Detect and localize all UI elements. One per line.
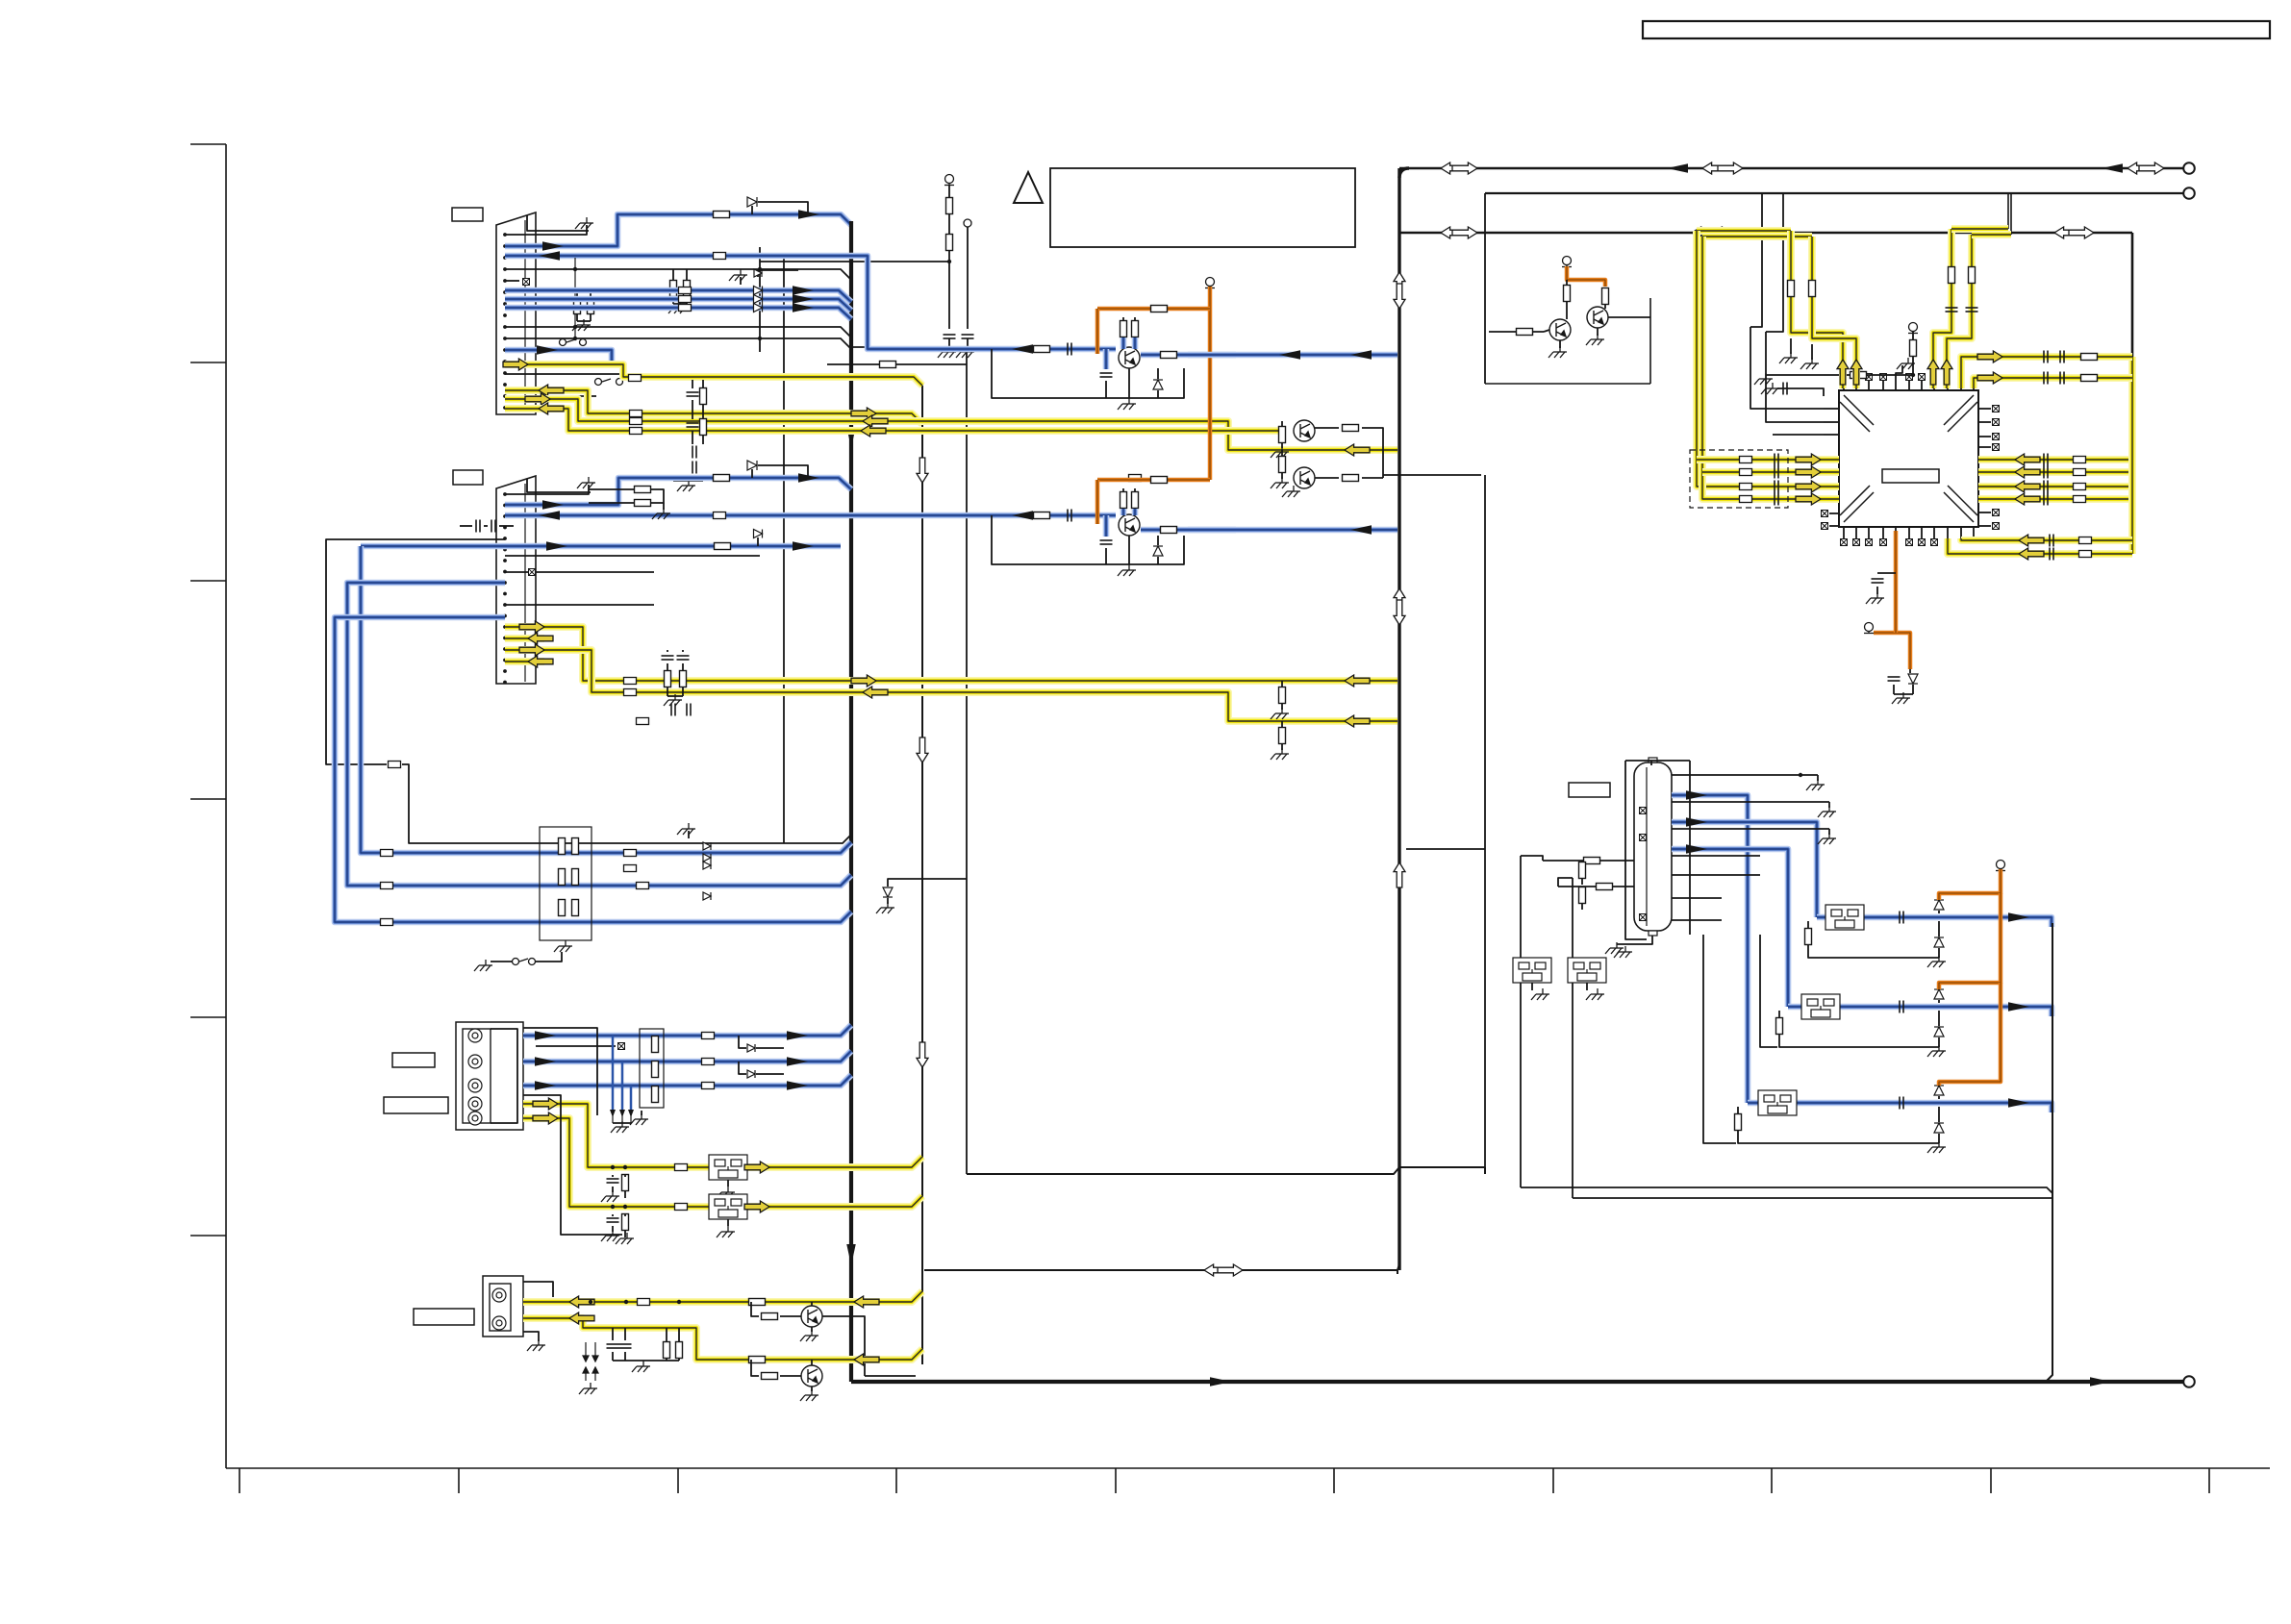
wire CN2 loop blue L3	[335, 617, 851, 922]
switch symbol 2	[513, 959, 536, 965]
wire blue CN3 row2	[523, 1051, 851, 1062]
terminal circle bottom right	[2183, 1376, 2195, 1387]
IC pins left	[1824, 408, 1839, 410]
IC pins right xmarks	[1978, 408, 1991, 410]
transistor pair on yellow pair A	[1279, 427, 1286, 443]
gate loop horizontals	[1521, 1187, 2052, 1193]
d-sub xmark pins	[1640, 808, 1647, 814]
thin verticals from line2 to IC	[1750, 193, 1762, 327]
wire CN2 loop blue L1	[361, 543, 841, 550]
wire blue to bus y=552	[1141, 527, 1397, 534]
wire CN1 pin1 to ground	[505, 225, 587, 235]
caps cluster below CN2 yellow	[662, 656, 674, 660]
yellow bus right vertical	[2128, 357, 2136, 554]
title block	[1643, 21, 2270, 38]
connector CN4 label	[414, 1309, 474, 1325]
mosfet protector row4	[709, 1155, 747, 1180]
diode on B1	[751, 206, 753, 214]
capacitor cluster below CN1 yellows	[687, 392, 699, 396]
bus vertical black x=885	[849, 221, 853, 1382]
wire blue row2 output	[1788, 1007, 2052, 1016]
transistor Q1	[1119, 347, 1140, 368]
connector CN5 d-sub body	[1634, 762, 1672, 931]
IC pins bottom with xmarks	[1843, 527, 1845, 538]
wire blue row3 output	[1748, 1103, 2052, 1112]
border ruler left	[225, 144, 227, 1468]
wire CN2 loop blue L2	[347, 583, 851, 886]
warning triangle	[1014, 172, 1043, 203]
dashed box on rows A	[1690, 450, 1788, 508]
d-sub wires	[1672, 774, 1818, 776]
wire blue bundle CN1 (3x)	[505, 290, 851, 302]
net line y=1221	[967, 1167, 1485, 1174]
CN4 ground	[523, 1332, 539, 1341]
mosfet gate cluster 1	[1513, 958, 1551, 983]
yellow rows C below right	[1961, 538, 2132, 540]
net line y=242	[1399, 232, 2132, 235]
connector CN1 pin rail	[524, 220, 526, 412]
gate loop lines	[1521, 856, 1543, 861]
wire blue CN1 pin11	[505, 350, 612, 366]
transistor Q5	[801, 1306, 822, 1327]
yellow verticals to IC top-right	[1933, 229, 1951, 388]
bus vertical x=2217	[2131, 233, 2134, 357]
caps below	[671, 704, 675, 716]
connector CN1 body	[496, 212, 536, 414]
connector CN3 body	[456, 1022, 523, 1130]
orange ladder right	[1996, 861, 2005, 871]
wire blue dsub1	[1672, 795, 1748, 1103]
blue overdraw at orange crossing	[1188, 352, 1236, 359]
CN3 enclosure lines	[523, 1028, 597, 1115]
junction rail x=598	[574, 258, 576, 338]
wire yellow CN4 row1	[523, 1291, 922, 1302]
transistor Q4	[1587, 307, 1608, 328]
net line y=1321	[924, 1270, 1397, 1274]
net line y=201 to terminal	[1485, 192, 2183, 194]
IC support nets left	[1908, 323, 1918, 334]
bus vertical x=1455 thick	[1397, 168, 1400, 1270]
wire zener branch	[888, 879, 967, 887]
bus vertical x=959 with down arrows	[921, 386, 923, 1364]
wire blue CN3 row1	[523, 1025, 851, 1036]
bus vertical x=2088 pair	[2007, 193, 2009, 229]
bus vertical x=1005	[966, 347, 968, 1174]
wire CN2 thin mids	[505, 555, 760, 557]
terminal circle 2	[2183, 187, 2195, 199]
wire blue B1 output to bus	[1141, 352, 1397, 359]
bus vertical x=815	[783, 258, 785, 843]
wire yellow CN2 group	[505, 627, 1397, 681]
wire blue B2 from CN1 pin3	[505, 256, 1116, 349]
connector CN2 pins	[503, 492, 507, 496]
connector CN2 body	[496, 476, 536, 684]
diode row for blue bundle	[754, 287, 763, 295]
wire bus to x1005	[851, 346, 967, 348]
wire yellow CN3 row4	[523, 1104, 922, 1167]
xmark stub	[536, 1045, 616, 1047]
d-sub bracket right	[1689, 761, 1691, 935]
wire yellow CN3 row5	[523, 1118, 922, 1207]
switch symbol	[560, 339, 587, 346]
connector CN1 pins	[503, 233, 507, 237]
IC U1 body	[1839, 390, 1978, 527]
yellow verticals to IC top-left	[1791, 231, 1843, 388]
mosfet protector row5	[709, 1194, 747, 1219]
orange IC bottom branch	[1894, 531, 1899, 625]
wire yellow row C CN1	[505, 409, 1282, 431]
net line y=175 to terminal	[1399, 167, 2183, 170]
thin line to box	[1383, 474, 1481, 476]
caps cluster CN4	[607, 1344, 619, 1348]
resistor stubs on yellow pair B	[1279, 687, 1286, 704]
wire yellow row B CN1	[505, 399, 1397, 450]
resistor ladder mid-left	[540, 827, 592, 940]
resistor pairs at orange taps	[1120, 321, 1127, 337]
mosfet gate cluster 2	[1568, 958, 1606, 983]
wire blue row1 output	[1817, 917, 2052, 927]
transistor Q2	[1119, 514, 1140, 536]
yellow rows D above	[1961, 357, 2132, 388]
resistor pair 2	[574, 298, 581, 314]
connector CN3 labels	[392, 1053, 435, 1067]
wire blue CN2 top	[505, 478, 851, 505]
ground stub above CN1	[527, 215, 589, 231]
wire yellow Y1 from CN1	[505, 364, 922, 386]
terminal circle 1	[2183, 162, 2195, 174]
wire blue B1 from CN1 pin2	[505, 214, 851, 246]
orange junction 2	[1095, 513, 1099, 517]
wire blue CN3 row3	[523, 1075, 851, 1086]
diode stack mid	[703, 842, 711, 850]
yellow top pair left	[1697, 227, 1791, 235]
CN4 enclosure	[523, 1282, 553, 1297]
diodes row1	[1934, 900, 1944, 910]
Q1 bias details	[1103, 349, 1110, 369]
yellow left verticals down to rows	[1697, 231, 1839, 487]
connector CN5 label	[1569, 783, 1610, 797]
border ruler bottom	[226, 1467, 2270, 1469]
termination verticals	[612, 1036, 615, 1111]
resistor pair CN2	[635, 487, 651, 493]
wire blue CN2 long left-arrow	[505, 512, 1116, 519]
thin line y=883	[1406, 848, 1485, 850]
wire yellow row A CN1	[505, 390, 922, 424]
resistor pair below CN1 wires	[670, 281, 677, 297]
bus vertical x=790	[759, 247, 761, 352]
capacitor pair series	[476, 520, 480, 533]
orange power net middle	[1205, 278, 1215, 288]
transistor Q6	[801, 1365, 822, 1387]
row1 branch diode	[739, 1036, 746, 1048]
thin net with resistor	[827, 363, 967, 365]
switch symbol b	[595, 379, 623, 386]
d-sub resistor rows	[1543, 860, 1634, 862]
vertical to bottom bus	[2046, 923, 2052, 1382]
yellow row4 components	[611, 1165, 615, 1169]
transistor Q3	[1549, 319, 1571, 340]
yellow rows B right of IC	[1978, 456, 2132, 463]
connector CN2 label	[453, 470, 483, 485]
notes box	[1050, 168, 1355, 247]
diode top stub	[758, 270, 798, 277]
resistor ladder CN3	[640, 1029, 664, 1108]
IC pins top	[1843, 381, 1845, 390]
beads on yellow B rows	[624, 678, 637, 685]
d-sub top loop	[1650, 761, 1652, 765]
mosfet protector row1	[1825, 905, 1864, 930]
connector CN4 body	[483, 1276, 523, 1337]
wire CN1 thin pins	[505, 269, 851, 280]
IC U1 label box	[1882, 469, 1939, 483]
inner pin lines CN3	[491, 1029, 517, 1123]
beads mid rows	[624, 850, 637, 857]
wire blue dsub2	[1672, 822, 1817, 917]
connector CN1 label	[452, 208, 483, 221]
connector CN2 pin rail	[524, 484, 526, 682]
pull-up network near notes	[944, 175, 954, 186]
thin verticals from dsub region	[1703, 935, 1736, 1143]
bus vertical x=1544	[1484, 193, 1486, 384]
Q2 bias details	[1103, 515, 1110, 537]
wire CN2 pin1 ground	[505, 485, 589, 494]
wire yellow CN4 row2	[523, 1318, 922, 1360]
bus bottom horizontal y=1437	[851, 1380, 2183, 1384]
wire CN2 loop thin	[326, 539, 505, 764]
wire blue dsub3	[1672, 849, 1788, 1007]
row1 bias	[1805, 929, 1812, 945]
yellow rows A into IC	[1697, 456, 1839, 463]
transistor cluster top-right	[1485, 383, 1650, 385]
orange junction	[1095, 347, 1099, 351]
